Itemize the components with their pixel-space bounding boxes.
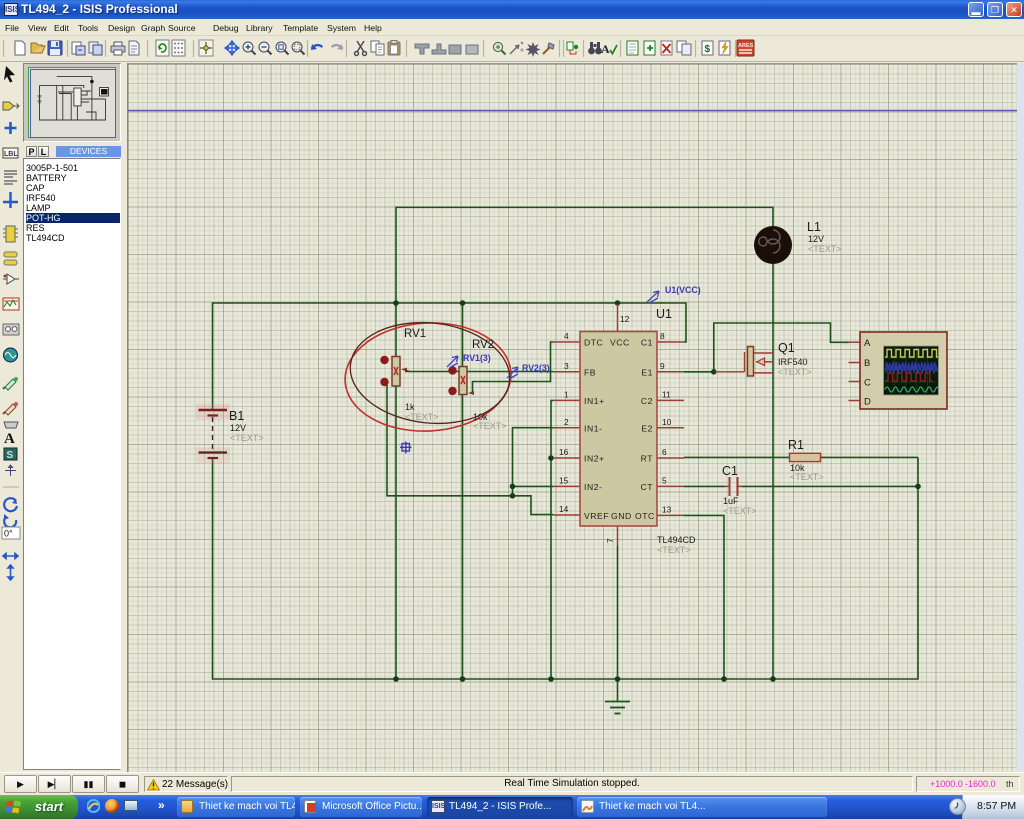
svg-text:LBL: LBL <box>4 151 18 158</box>
svg-text:U1: U1 <box>656 307 672 321</box>
svg-text:11: 11 <box>662 390 671 400</box>
svg-text:RV1: RV1 <box>404 328 426 340</box>
svg-text:B: B <box>864 358 870 369</box>
svg-text:R1: R1 <box>788 438 804 452</box>
svg-text:RV2: RV2 <box>472 339 494 351</box>
svg-text:DTC: DTC <box>584 338 603 348</box>
svg-text:7: 7 <box>605 538 615 543</box>
svg-text:<TEXT>: <TEXT> <box>723 506 757 516</box>
svg-text:C1: C1 <box>722 464 738 478</box>
svg-text:IN1+: IN1+ <box>584 396 605 406</box>
svg-text:15: 15 <box>559 476 569 486</box>
svg-text:B1: B1 <box>229 409 244 423</box>
svg-text:GND: GND <box>611 511 632 521</box>
svg-text:<TEXT>: <TEXT> <box>405 412 439 422</box>
svg-text:8: 8 <box>660 331 665 341</box>
svg-text:RV1(3): RV1(3) <box>463 353 491 363</box>
svg-text:ARES: ARES <box>738 43 754 49</box>
svg-text:2: 2 <box>564 417 569 427</box>
svg-text:9: 9 <box>660 361 665 371</box>
svg-text:RV2(3): RV2(3) <box>522 363 550 373</box>
svg-text:<TEXT>: <TEXT> <box>808 244 842 254</box>
svg-text:14: 14 <box>559 504 569 514</box>
svg-text:RT: RT <box>641 454 654 464</box>
svg-text:FB: FB <box>584 368 596 378</box>
svg-text:3: 3 <box>564 361 569 371</box>
svg-text:A: A <box>4 431 15 447</box>
svg-text:U1(VCC): U1(VCC) <box>665 285 701 295</box>
svg-text:C: C <box>864 378 871 389</box>
svg-text:C1: C1 <box>641 338 653 348</box>
svg-text:CT: CT <box>640 482 653 492</box>
svg-text:4: 4 <box>564 331 569 341</box>
svg-text:1: 1 <box>564 390 569 400</box>
svg-text:<TEXT>: <TEXT> <box>778 367 812 377</box>
svg-text:<TEXT>: <TEXT> <box>790 472 824 482</box>
svg-text:Q1: Q1 <box>778 341 795 355</box>
svg-text:IN1-: IN1- <box>584 424 602 434</box>
svg-text:E2: E2 <box>641 424 653 434</box>
svg-text:C2: C2 <box>641 396 653 406</box>
svg-text:D: D <box>864 397 871 408</box>
svg-text:6: 6 <box>662 447 667 457</box>
svg-text:$: $ <box>705 44 711 55</box>
svg-text:OTC: OTC <box>635 511 655 521</box>
svg-text:E1: E1 <box>641 368 653 378</box>
svg-text:S: S <box>7 450 14 461</box>
svg-text:A: A <box>601 42 610 56</box>
svg-text:<TEXT>: <TEXT> <box>657 545 691 555</box>
svg-text:IRF540: IRF540 <box>778 357 808 367</box>
svg-text:VCC: VCC <box>610 338 630 348</box>
svg-text:IN2-: IN2- <box>584 482 602 492</box>
svg-text:IN2+: IN2+ <box>584 454 605 464</box>
svg-text:1k: 1k <box>405 402 415 412</box>
svg-text:16: 16 <box>559 447 569 457</box>
svg-text:<TEXT>: <TEXT> <box>473 421 507 431</box>
svg-text:10: 10 <box>662 417 672 427</box>
svg-text:A: A <box>864 338 871 349</box>
svg-text:L1: L1 <box>807 220 821 234</box>
svg-text:VREF: VREF <box>584 511 609 521</box>
svg-text:TL494CD: TL494CD <box>657 535 696 545</box>
svg-text:12V: 12V <box>230 423 246 433</box>
svg-text:12: 12 <box>620 314 630 324</box>
svg-text:0°: 0° <box>4 529 13 539</box>
svg-text:<TEXT>: <TEXT> <box>230 433 264 443</box>
svg-text:13: 13 <box>662 505 672 515</box>
svg-text:5: 5 <box>662 476 667 486</box>
svg-text:12V: 12V <box>808 234 824 244</box>
svg-text:1uF: 1uF <box>723 496 739 506</box>
